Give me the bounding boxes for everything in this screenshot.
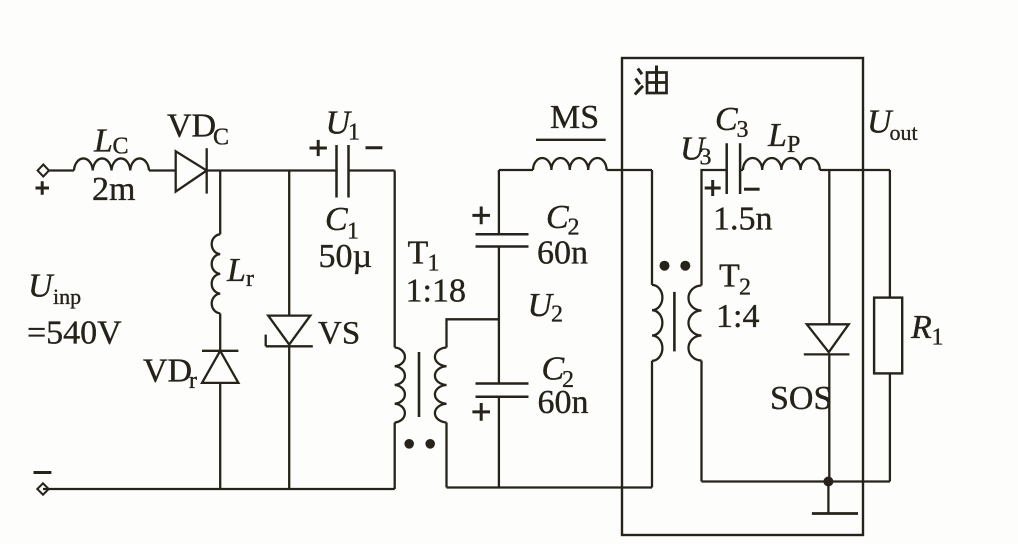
MS underline	[536, 139, 606, 141]
wire C2 branch top	[498, 170, 500, 234]
wire MS left	[499, 169, 533, 171]
svg-text:60n: 60n	[538, 384, 589, 421]
svg-text:C: C	[715, 101, 738, 138]
wire	[349, 169, 395, 171]
wire	[219, 313, 221, 350]
wire R1 branch top	[889, 170, 891, 298]
svg-text:VD: VD	[167, 108, 216, 145]
svg-text:MS: MS	[550, 99, 599, 136]
svg-text:3: 3	[737, 117, 749, 143]
plus sign C3	[705, 180, 721, 196]
wire Lr branch	[219, 171, 221, 235]
plus sign input	[36, 181, 50, 194]
svg-text:L: L	[93, 123, 113, 160]
svg-text:VD: VD	[143, 353, 192, 390]
diode VDC	[176, 151, 207, 191]
capacitor C2 top	[476, 234, 529, 246]
bottom rail inner	[702, 480, 890, 482]
svg-text:1.5n: 1.5n	[713, 201, 773, 238]
terminal minus input	[37, 483, 48, 494]
capacitor C1	[337, 145, 349, 198]
svg-text:1: 1	[348, 120, 360, 146]
svg-text:C: C	[325, 201, 348, 238]
capacitor C3	[727, 143, 740, 194]
wire	[700, 361, 702, 482]
svg-text:3: 3	[700, 145, 712, 171]
transformer T1 secondary	[435, 348, 447, 423]
transformer T1 primary	[395, 348, 405, 423]
svg-text:C: C	[113, 134, 129, 160]
minus sign C1	[366, 146, 383, 149]
inductor LC	[74, 158, 149, 170]
plus sign C2 top	[472, 207, 490, 225]
wire	[394, 423, 396, 490]
label oil (you character)	[635, 66, 667, 95]
svg-text:SOS: SOS	[770, 380, 832, 417]
svg-text:1:4: 1:4	[716, 298, 759, 335]
T1 dot secondary	[425, 439, 435, 449]
svg-text:1: 1	[932, 325, 944, 351]
resistor R1	[874, 298, 902, 374]
wire T2 primary branch	[651, 170, 653, 285]
wire T1 primary top	[394, 171, 396, 348]
capacitor C2 bottom	[476, 384, 529, 397]
transformer T2 secondary	[689, 286, 702, 361]
svg-text:T: T	[408, 235, 429, 272]
svg-text:C: C	[546, 199, 569, 236]
T2 dot secondary	[680, 261, 690, 271]
thyristor VS	[268, 316, 310, 345]
svg-text:r: r	[189, 368, 197, 394]
svg-text:L: L	[767, 117, 787, 154]
diode SOS	[807, 324, 849, 352]
minus sign input	[34, 471, 52, 474]
bottom rail middle	[447, 486, 653, 488]
wire	[207, 169, 338, 171]
wire	[740, 169, 743, 171]
wire T1 secondary top	[447, 319, 499, 347]
inductor MS	[533, 158, 607, 170]
bottom rail left	[43, 488, 395, 490]
T1 core	[418, 352, 421, 417]
wire SOS branch	[828, 170, 830, 324]
svg-text:L: L	[226, 252, 246, 289]
svg-text:out: out	[890, 120, 918, 145]
svg-text:T: T	[719, 258, 740, 295]
inductor Lr	[212, 234, 221, 313]
minus sign C3	[744, 188, 760, 191]
wire	[820, 169, 890, 171]
wire	[651, 361, 653, 488]
svg-text:U: U	[28, 268, 55, 305]
ground	[827, 482, 829, 514]
transformer T2 primary	[652, 285, 662, 361]
wire VS branch	[288, 171, 290, 316]
wire	[149, 169, 176, 171]
svg-text:C: C	[213, 125, 229, 151]
svg-text:VS: VS	[318, 316, 360, 352]
plus sign C2 bottom	[472, 403, 490, 421]
plus sign C1	[310, 140, 327, 156]
wire MS right	[607, 169, 652, 171]
wire	[288, 346, 290, 489]
terminal plus input	[38, 165, 49, 177]
wire	[498, 397, 500, 488]
wire	[889, 373, 891, 481]
wire	[828, 354, 830, 481]
wire	[498, 247, 500, 384]
wire	[49, 169, 74, 171]
svg-text:R: R	[910, 309, 932, 346]
svg-text:50µ: 50µ	[319, 238, 373, 275]
junction dot	[823, 477, 833, 487]
diode VDr	[202, 350, 238, 352]
oil tank box	[622, 58, 863, 535]
wire T2 secondary top	[702, 170, 727, 286]
svg-text:=540V: =540V	[27, 315, 122, 352]
svg-text:2: 2	[551, 302, 563, 328]
svg-text:2m: 2m	[92, 171, 135, 208]
wire	[445, 423, 447, 488]
T1 dot primary	[404, 439, 414, 449]
svg-text:r: r	[246, 266, 254, 292]
wire	[219, 383, 221, 489]
svg-text:2: 2	[739, 275, 751, 301]
svg-text:P: P	[787, 132, 800, 158]
T2 dot primary	[660, 261, 670, 271]
svg-text:1:18: 1:18	[406, 273, 466, 310]
svg-text:inp: inp	[53, 284, 81, 309]
inductor LP	[743, 158, 820, 170]
T2 core	[673, 292, 676, 352]
svg-text:60n: 60n	[537, 235, 588, 272]
